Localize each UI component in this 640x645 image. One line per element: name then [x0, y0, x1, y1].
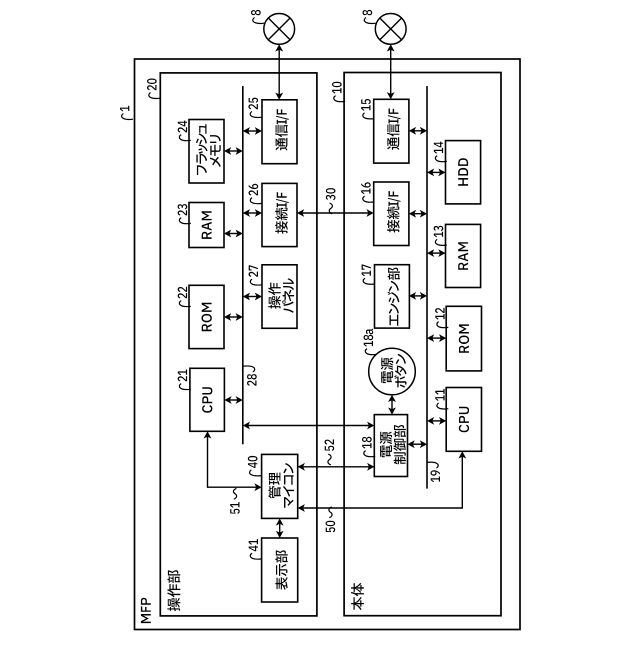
wire: bus19 - ROM12: [427, 334, 446, 342]
label MFP: [141, 598, 151, 623]
ref 8: [251, 10, 264, 24]
box 10 本体 (main body): [344, 73, 501, 616]
ref 21: [178, 370, 191, 390]
ref 18a: [364, 329, 377, 355]
wire 50: 管理マイコン40 - CPU11: [298, 451, 467, 512]
wire: エンジン部17 - bus19: [409, 292, 427, 300]
box 17 エンジン部 (engine unit): [375, 265, 410, 328]
network symbol (8): circle with X: [375, 14, 406, 45]
box 23 RAM: [189, 203, 224, 248]
outer box MFP (1): [135, 59, 521, 630]
ref 28: [243, 366, 256, 386]
wire: bus28 - 操作パネル27: [243, 293, 262, 301]
ref 11: [435, 389, 448, 409]
box 20 操作部 (operation unit): [160, 73, 317, 616]
box 11 CPU: [446, 388, 481, 452]
box 41 表示部 (display unit): [262, 538, 298, 602]
bus 19 (本体 internal bus): [426, 86, 428, 489]
ref 1: [120, 106, 133, 120]
ref 30: [326, 188, 336, 214]
box 21 CPU: [190, 368, 225, 431]
wire: network to 通信I/F 15: [387, 44, 395, 99]
wire: bus19 - RAM13: [427, 249, 446, 257]
ref 19: [427, 462, 440, 482]
ref 20: [147, 79, 160, 99]
ref 40: [248, 456, 261, 476]
box 16 接続I/F (connection I/F): [374, 182, 409, 246]
wire: 電源ボタン18a - 電源制御部18: [388, 395, 396, 415]
power button 18a 電源ボタン (circle): [369, 348, 416, 395]
ref 12: [435, 308, 448, 328]
wire: bus19 - HDD14: [427, 169, 446, 177]
wire: 電源制御部18 - bus19: [408, 440, 428, 448]
bus 28 (操作部 internal bus): [242, 86, 244, 444]
wire 51: 管理マイコン40 - CPU21: [204, 431, 262, 491]
box 15 通信I/F (communication I/F): [374, 99, 409, 163]
box 12 ROM: [446, 306, 481, 371]
ref 13: [434, 226, 447, 246]
ref 15: [361, 99, 374, 119]
box 25 通信I/F (communication I/F): [262, 100, 297, 164]
ref 25: [248, 98, 261, 118]
wire: CPU21 - bus28: [224, 396, 242, 404]
ref 14: [434, 142, 447, 162]
network symbol (8): circle with X: [264, 14, 295, 45]
ref 10: [332, 82, 345, 102]
ref 18: [362, 437, 375, 457]
wire: 通信I/F15 - bus19: [409, 127, 427, 135]
wire: network to 通信I/F 25: [275, 44, 283, 100]
ref 50: [326, 507, 336, 533]
box 26 接続I/F (connection I/F): [262, 183, 297, 246]
wire: 接続I/F16 - bus19: [409, 210, 427, 218]
wire: ROM22 - bus28: [224, 313, 243, 321]
label 本体: [351, 583, 364, 610]
wire: bus28 - 電源制御部18: [243, 422, 374, 430]
ref 51: [230, 488, 240, 514]
ref 17: [362, 265, 375, 285]
box 40 管理マイコン (management microcontroller): [262, 454, 298, 518]
ref 8: [363, 10, 376, 24]
ref 26: [249, 184, 262, 204]
ref 22: [178, 287, 191, 307]
box 18 電源制御部 (power control unit): [374, 415, 407, 477]
ref 24: [178, 121, 191, 141]
box 14 HDD: [446, 141, 481, 204]
wire 52: 管理マイコン40 - 電源制御部18: [298, 463, 375, 471]
ref 52: [325, 439, 335, 465]
ref 41: [249, 539, 262, 559]
ref 27: [249, 265, 262, 285]
wire: bus28 - 接続I/F26: [243, 209, 262, 217]
wire: bus19 - CPU11: [427, 417, 446, 425]
box 13 RAM: [446, 224, 481, 287]
wire: RAM23 - bus28: [224, 230, 243, 238]
ref 16: [361, 182, 374, 202]
wire: フラッシュメモリ24 - bus28: [224, 147, 243, 155]
box 22 ROM: [189, 285, 224, 348]
label 操作部: [167, 570, 180, 611]
box 27 操作パネル (operation panel): [262, 265, 297, 329]
wire 30: 接続I/F26 - 接続I/F16: [297, 209, 374, 217]
wire: bus28 - 通信I/F25: [243, 127, 262, 135]
ref 23: [178, 204, 191, 224]
box 24 フラッシュメモリ (flash memory): [189, 120, 224, 184]
wire: 管理マイコン40 - 表示部41: [276, 518, 284, 538]
